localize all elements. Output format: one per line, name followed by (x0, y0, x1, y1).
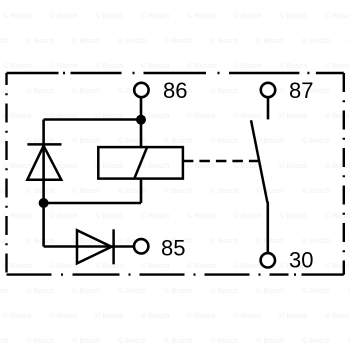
wire: terminal 86 down through junction to coil top (140, 97, 143, 148)
svg-text:87: 87 (289, 78, 313, 103)
svg-text:30: 30 (289, 248, 313, 273)
relay coil diagonal (134, 147, 147, 179)
terminal 87 circle (261, 83, 275, 97)
wire: coil bottom down (140, 179, 143, 203)
wire: horizontal junction B to coil-bottom corner (44, 202, 141, 205)
diode D2 cathode bar (112, 229, 115, 264)
wire: horizontal from junction A left (44, 118, 141, 121)
wire: terminal 87 stub down (fixed contact) (267, 97, 270, 120)
relay enclosure border bottom (7, 273, 344, 275)
terminal 30 circle (261, 253, 275, 267)
relay enclosure border left (5, 73, 7, 275)
relay coil K1 (98, 147, 183, 179)
diode D2 (to terminal 85) triangle (77, 230, 112, 263)
diode D1 (across coil), cathode bar (27, 143, 61, 146)
svg-text:86: 86 (163, 78, 187, 103)
mechanical link (dashed) coil to switch (183, 160, 259, 163)
diode D1 triangle (27, 146, 61, 180)
wire: junction B down to 85 branch (42, 203, 45, 247)
relay enclosure border right (343, 73, 345, 275)
switch arm S1 (251, 120, 267, 202)
relay enclosure border top (7, 72, 344, 74)
wire: switch arm bottom to terminal 30 (266, 202, 269, 254)
junction node A (86 to coil/diode) (136, 115, 146, 125)
wire: left branch vertical through diode D1 (42, 120, 45, 204)
terminal 85 circle (134, 239, 148, 253)
wire: horizontal to diode D2 and terminal 85 (44, 245, 135, 248)
svg-text:85: 85 (161, 236, 185, 261)
terminal 86 circle (134, 83, 148, 97)
junction node B (coil bottom / diode / 85) (39, 198, 49, 208)
